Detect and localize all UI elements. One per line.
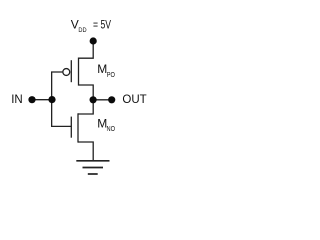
svg-text:OUT: OUT bbox=[122, 94, 146, 106]
svg-text:M: M bbox=[97, 62, 107, 76]
svg-text:NO: NO bbox=[107, 126, 116, 133]
svg-text:IN: IN bbox=[11, 94, 23, 106]
svg-text:= 5V: = 5V bbox=[93, 20, 111, 32]
svg-text:DD: DD bbox=[78, 27, 86, 34]
svg-text:PO: PO bbox=[107, 72, 116, 79]
